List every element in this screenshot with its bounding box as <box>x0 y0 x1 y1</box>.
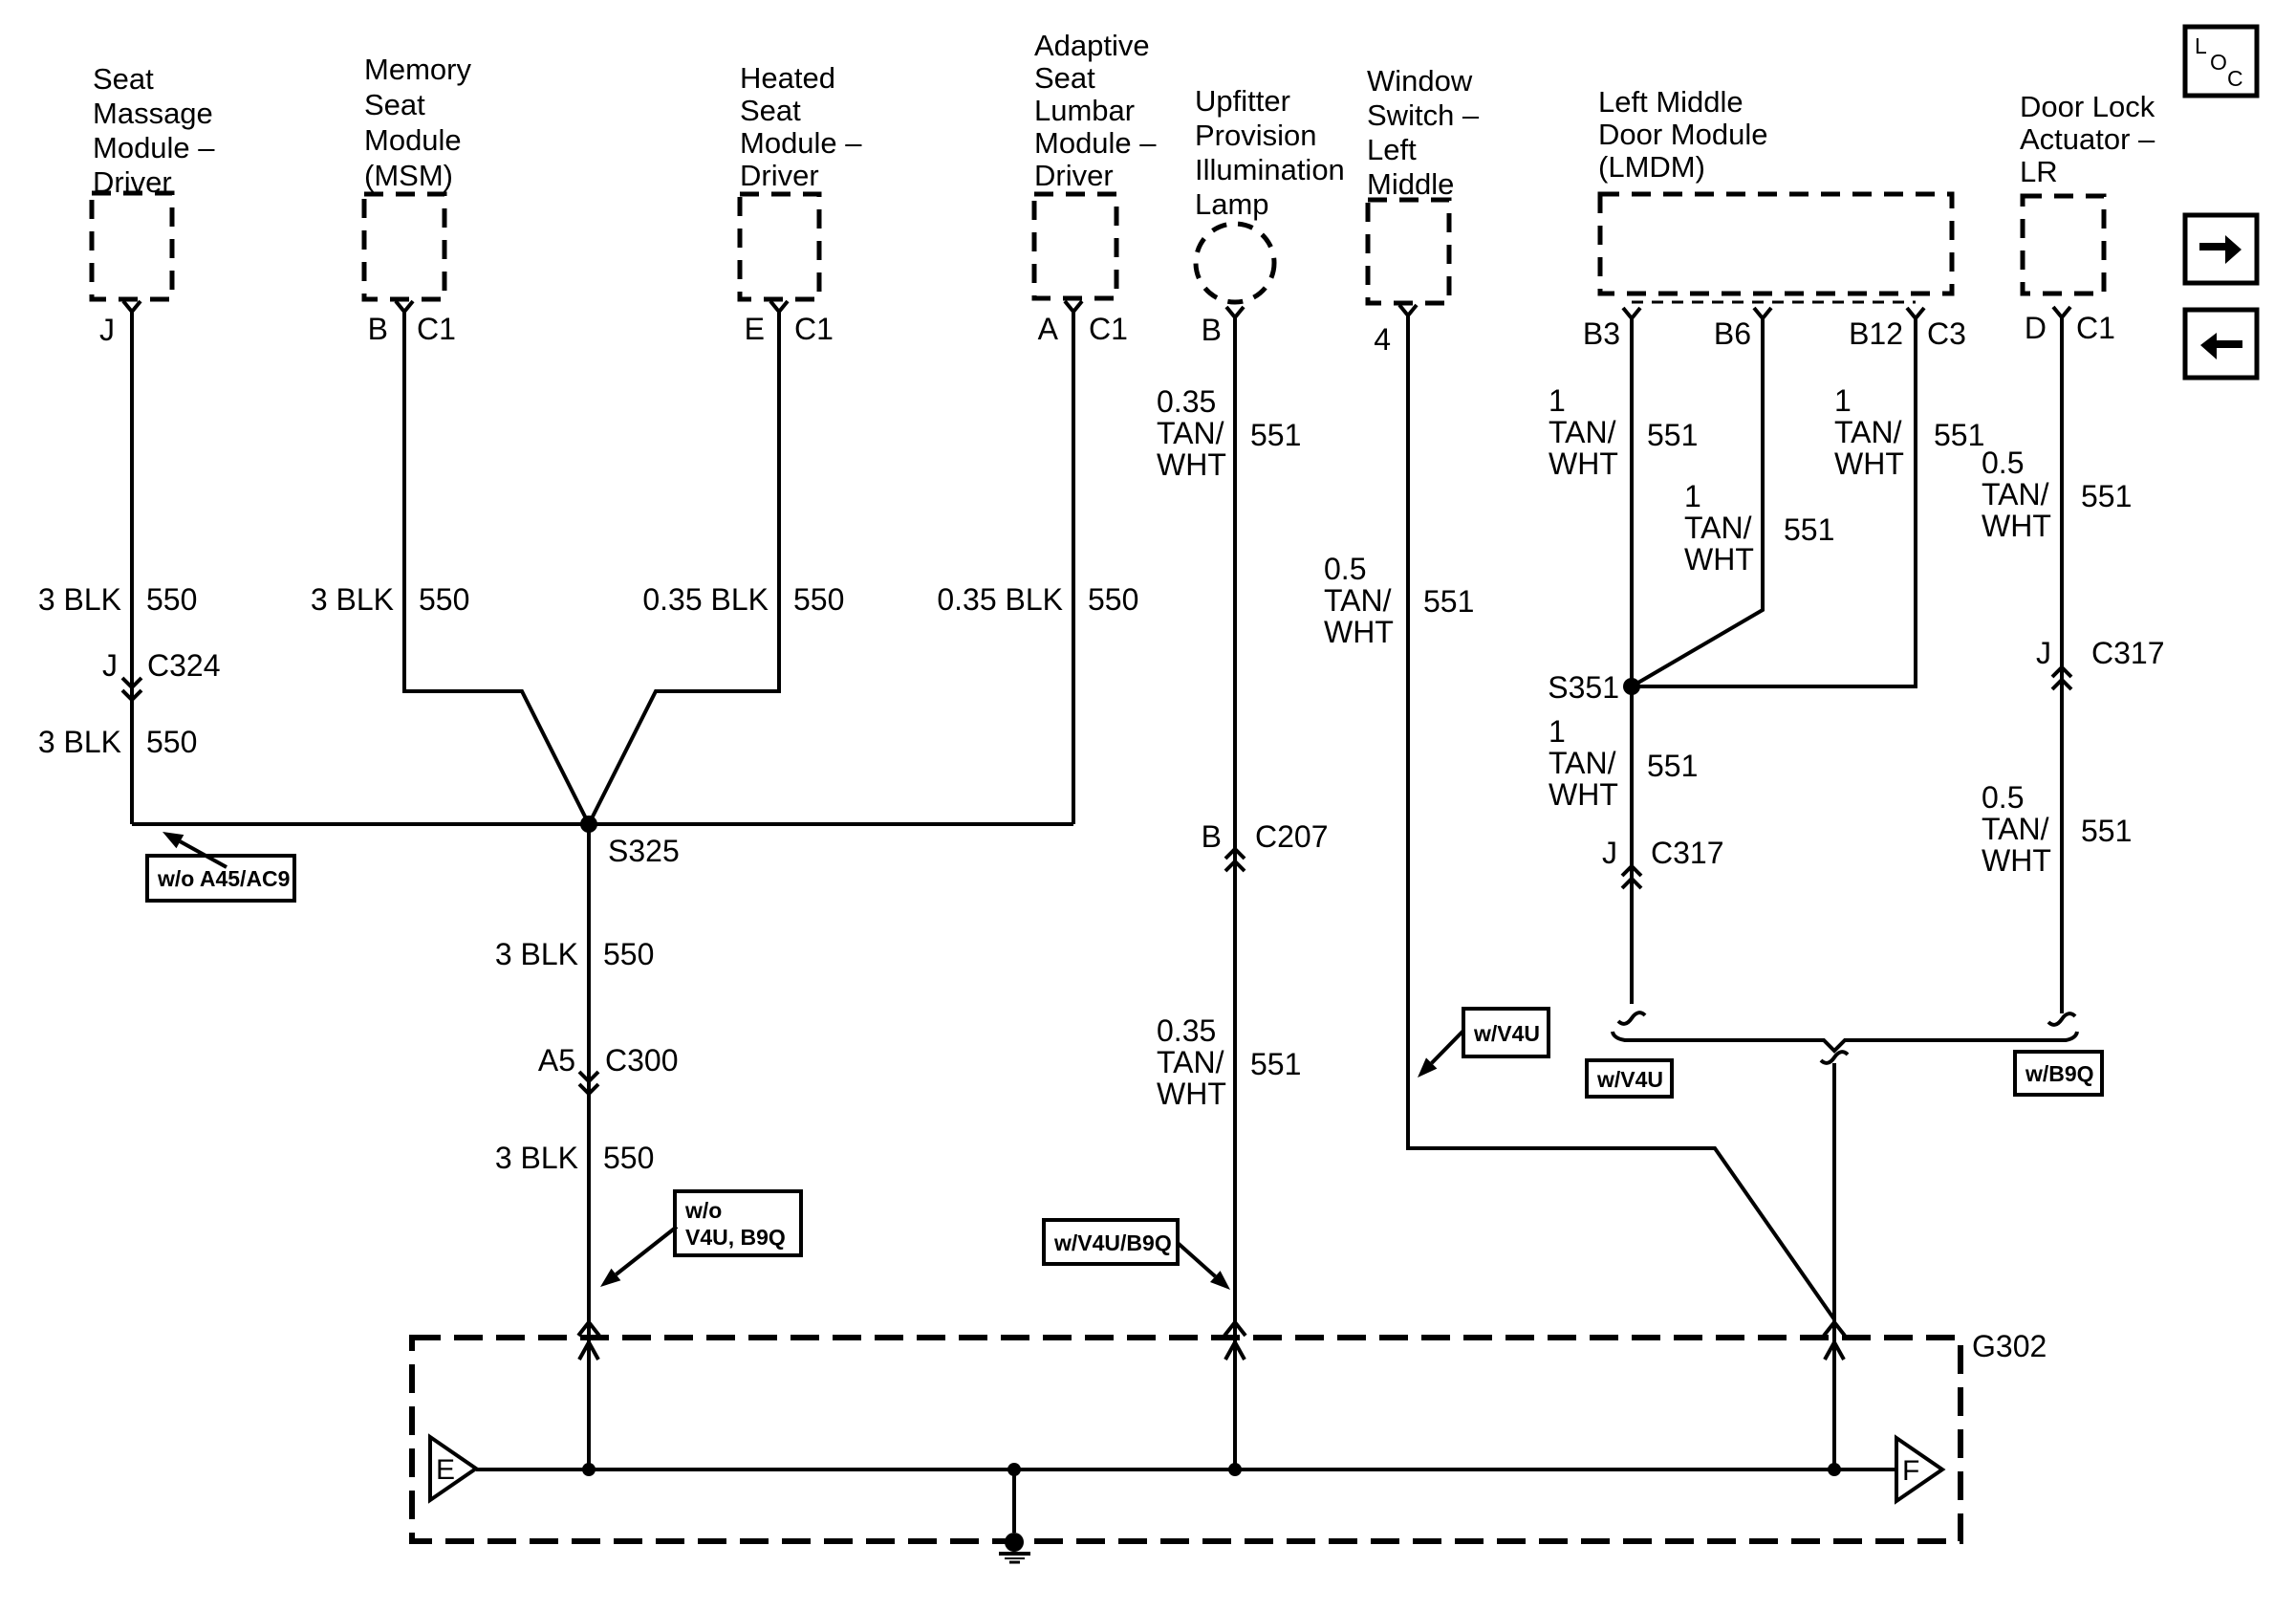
svg-text:WHT: WHT <box>1549 446 1618 481</box>
svg-text:S325: S325 <box>608 834 680 868</box>
svg-text:Switch –: Switch – <box>1367 98 1480 132</box>
svg-text:Lumbar: Lumbar <box>1034 94 1135 127</box>
svg-text:w/V4U: w/V4U <box>1473 1021 1540 1046</box>
svg-text:Adaptive: Adaptive <box>1034 29 1150 62</box>
svg-text:Heated: Heated <box>740 61 835 95</box>
svg-text:0.35: 0.35 <box>1157 384 1216 419</box>
svg-text:Module –: Module – <box>740 126 862 160</box>
svg-text:Driver: Driver <box>1034 159 1114 192</box>
svg-text:w/o: w/o <box>684 1198 722 1223</box>
svg-text:TAN/: TAN/ <box>1684 511 1752 545</box>
svg-text:Memory: Memory <box>364 53 471 86</box>
svg-text:550: 550 <box>603 937 654 971</box>
svg-text:550: 550 <box>1088 582 1138 617</box>
svg-text:V4U, B9Q: V4U, B9Q <box>685 1225 786 1250</box>
svg-text:B6: B6 <box>1714 316 1751 351</box>
svg-text:C317: C317 <box>2091 636 2165 670</box>
svg-text:0.35 BLK: 0.35 BLK <box>642 582 769 617</box>
svg-text:0.5: 0.5 <box>1324 552 1366 586</box>
svg-text:WHT: WHT <box>1982 843 2051 878</box>
svg-text:(MSM): (MSM) <box>364 159 453 192</box>
svg-text:0.5: 0.5 <box>1982 780 2024 815</box>
svg-text:3 BLK: 3 BLK <box>311 582 394 617</box>
svg-text:551: 551 <box>1647 418 1698 452</box>
svg-text:551: 551 <box>1647 749 1698 783</box>
svg-text:Driver: Driver <box>93 165 172 199</box>
svg-text:C1: C1 <box>417 312 456 346</box>
svg-text:WHT: WHT <box>1684 542 1754 577</box>
svg-text:550: 550 <box>146 725 197 759</box>
svg-text:J: J <box>99 313 115 347</box>
svg-text:Lamp: Lamp <box>1195 187 1269 221</box>
svg-text:3 BLK: 3 BLK <box>495 937 578 971</box>
svg-text:Module: Module <box>364 123 462 157</box>
svg-text:WHT: WHT <box>1157 447 1226 482</box>
svg-text:Upfitter: Upfitter <box>1195 84 1290 118</box>
svg-text:Window: Window <box>1367 64 1473 98</box>
svg-text:1: 1 <box>1549 714 1566 749</box>
svg-text:J: J <box>1602 836 1617 870</box>
svg-text:S351: S351 <box>1548 670 1619 705</box>
svg-text:B: B <box>368 312 388 346</box>
svg-text:C3: C3 <box>1927 316 1966 351</box>
svg-text:Left: Left <box>1367 133 1417 166</box>
svg-text:WHT: WHT <box>1157 1077 1226 1111</box>
svg-text:D: D <box>2025 311 2047 345</box>
svg-text:Middle: Middle <box>1367 167 1454 201</box>
svg-text:1: 1 <box>1549 383 1566 418</box>
svg-text:F: F <box>1902 1455 1919 1487</box>
svg-text:TAN/: TAN/ <box>1549 415 1616 449</box>
svg-text:A: A <box>1038 312 1059 346</box>
svg-text:B: B <box>1202 819 1222 854</box>
svg-text:C1: C1 <box>794 312 834 346</box>
svg-text:551: 551 <box>2081 814 2132 848</box>
svg-text:C317: C317 <box>1651 836 1724 870</box>
svg-text:TAN/: TAN/ <box>1982 812 2049 846</box>
svg-text:Driver: Driver <box>740 159 819 192</box>
svg-text:LR: LR <box>2020 155 2058 188</box>
svg-text:B12: B12 <box>1849 316 1903 351</box>
svg-text:w/V4U: w/V4U <box>1596 1067 1663 1092</box>
svg-text:A5: A5 <box>538 1043 575 1078</box>
svg-text:1: 1 <box>1834 383 1852 418</box>
svg-text:C300: C300 <box>605 1043 679 1078</box>
svg-text:w/o A45/AC9: w/o A45/AC9 <box>157 866 290 891</box>
svg-text:TAN/: TAN/ <box>1549 746 1616 780</box>
svg-text:Seat: Seat <box>364 88 425 121</box>
svg-text:551: 551 <box>2081 479 2132 513</box>
svg-text:O: O <box>2210 50 2227 75</box>
svg-text:551: 551 <box>1784 512 1834 547</box>
svg-text:C324: C324 <box>147 648 221 683</box>
svg-text:0.5: 0.5 <box>1982 446 2024 480</box>
svg-text:4: 4 <box>1374 322 1391 357</box>
svg-text:B3: B3 <box>1583 316 1620 351</box>
svg-text:3 BLK: 3 BLK <box>38 725 121 759</box>
svg-text:TAN/: TAN/ <box>1982 477 2049 512</box>
svg-text:TAN/: TAN/ <box>1157 416 1224 450</box>
svg-text:Module –: Module – <box>1034 126 1157 160</box>
svg-text:Seat: Seat <box>1034 61 1095 95</box>
svg-text:Seat: Seat <box>740 94 801 127</box>
svg-text:551: 551 <box>1423 584 1474 619</box>
svg-text:TAN/: TAN/ <box>1834 415 1902 449</box>
svg-text:550: 550 <box>603 1141 654 1175</box>
svg-text:3 BLK: 3 BLK <box>495 1141 578 1175</box>
svg-text:WHT: WHT <box>1982 509 2051 543</box>
svg-text:550: 550 <box>793 582 844 617</box>
svg-text:Seat: Seat <box>93 62 154 96</box>
svg-text:1: 1 <box>1684 479 1701 513</box>
svg-text:G302: G302 <box>1972 1329 2047 1363</box>
svg-text:551: 551 <box>1250 418 1301 452</box>
svg-text:C1: C1 <box>2076 311 2115 345</box>
svg-text:E: E <box>436 1454 455 1486</box>
svg-text:(LMDM): (LMDM) <box>1598 150 1705 184</box>
svg-text:0.35: 0.35 <box>1157 1013 1216 1048</box>
svg-text:Massage: Massage <box>93 97 213 130</box>
svg-text:Door Module: Door Module <box>1598 118 1767 151</box>
svg-text:550: 550 <box>146 582 197 617</box>
svg-text:TAN/: TAN/ <box>1157 1045 1224 1079</box>
svg-text:C207: C207 <box>1255 819 1329 854</box>
svg-text:C1: C1 <box>1089 312 1128 346</box>
svg-text:551: 551 <box>1934 418 1984 452</box>
svg-text:Left Middle: Left Middle <box>1598 85 1744 119</box>
svg-text:Actuator –: Actuator – <box>2020 122 2155 156</box>
svg-text:WHT: WHT <box>1549 777 1618 812</box>
svg-text:E: E <box>745 312 765 346</box>
svg-text:Module –: Module – <box>93 131 215 164</box>
svg-text:C: C <box>2227 66 2243 91</box>
svg-text:TAN/: TAN/ <box>1324 583 1392 618</box>
svg-text:J: J <box>2036 636 2051 670</box>
svg-text:551: 551 <box>1250 1047 1301 1081</box>
svg-text:J: J <box>102 648 118 683</box>
svg-text:WHT: WHT <box>1324 615 1394 649</box>
svg-text:550: 550 <box>419 582 469 617</box>
svg-text:Illumination: Illumination <box>1195 153 1345 186</box>
svg-text:w/V4U/B9Q: w/V4U/B9Q <box>1053 1230 1172 1255</box>
svg-text:Door Lock: Door Lock <box>2020 90 2155 123</box>
svg-text:3 BLK: 3 BLK <box>38 582 121 617</box>
svg-text:w/B9Q: w/B9Q <box>2025 1061 2094 1086</box>
svg-text:L: L <box>2195 33 2207 58</box>
svg-text:0.35 BLK: 0.35 BLK <box>937 582 1063 617</box>
svg-text:Provision: Provision <box>1195 119 1317 152</box>
svg-text:WHT: WHT <box>1834 446 1904 481</box>
svg-text:B: B <box>1202 313 1222 347</box>
